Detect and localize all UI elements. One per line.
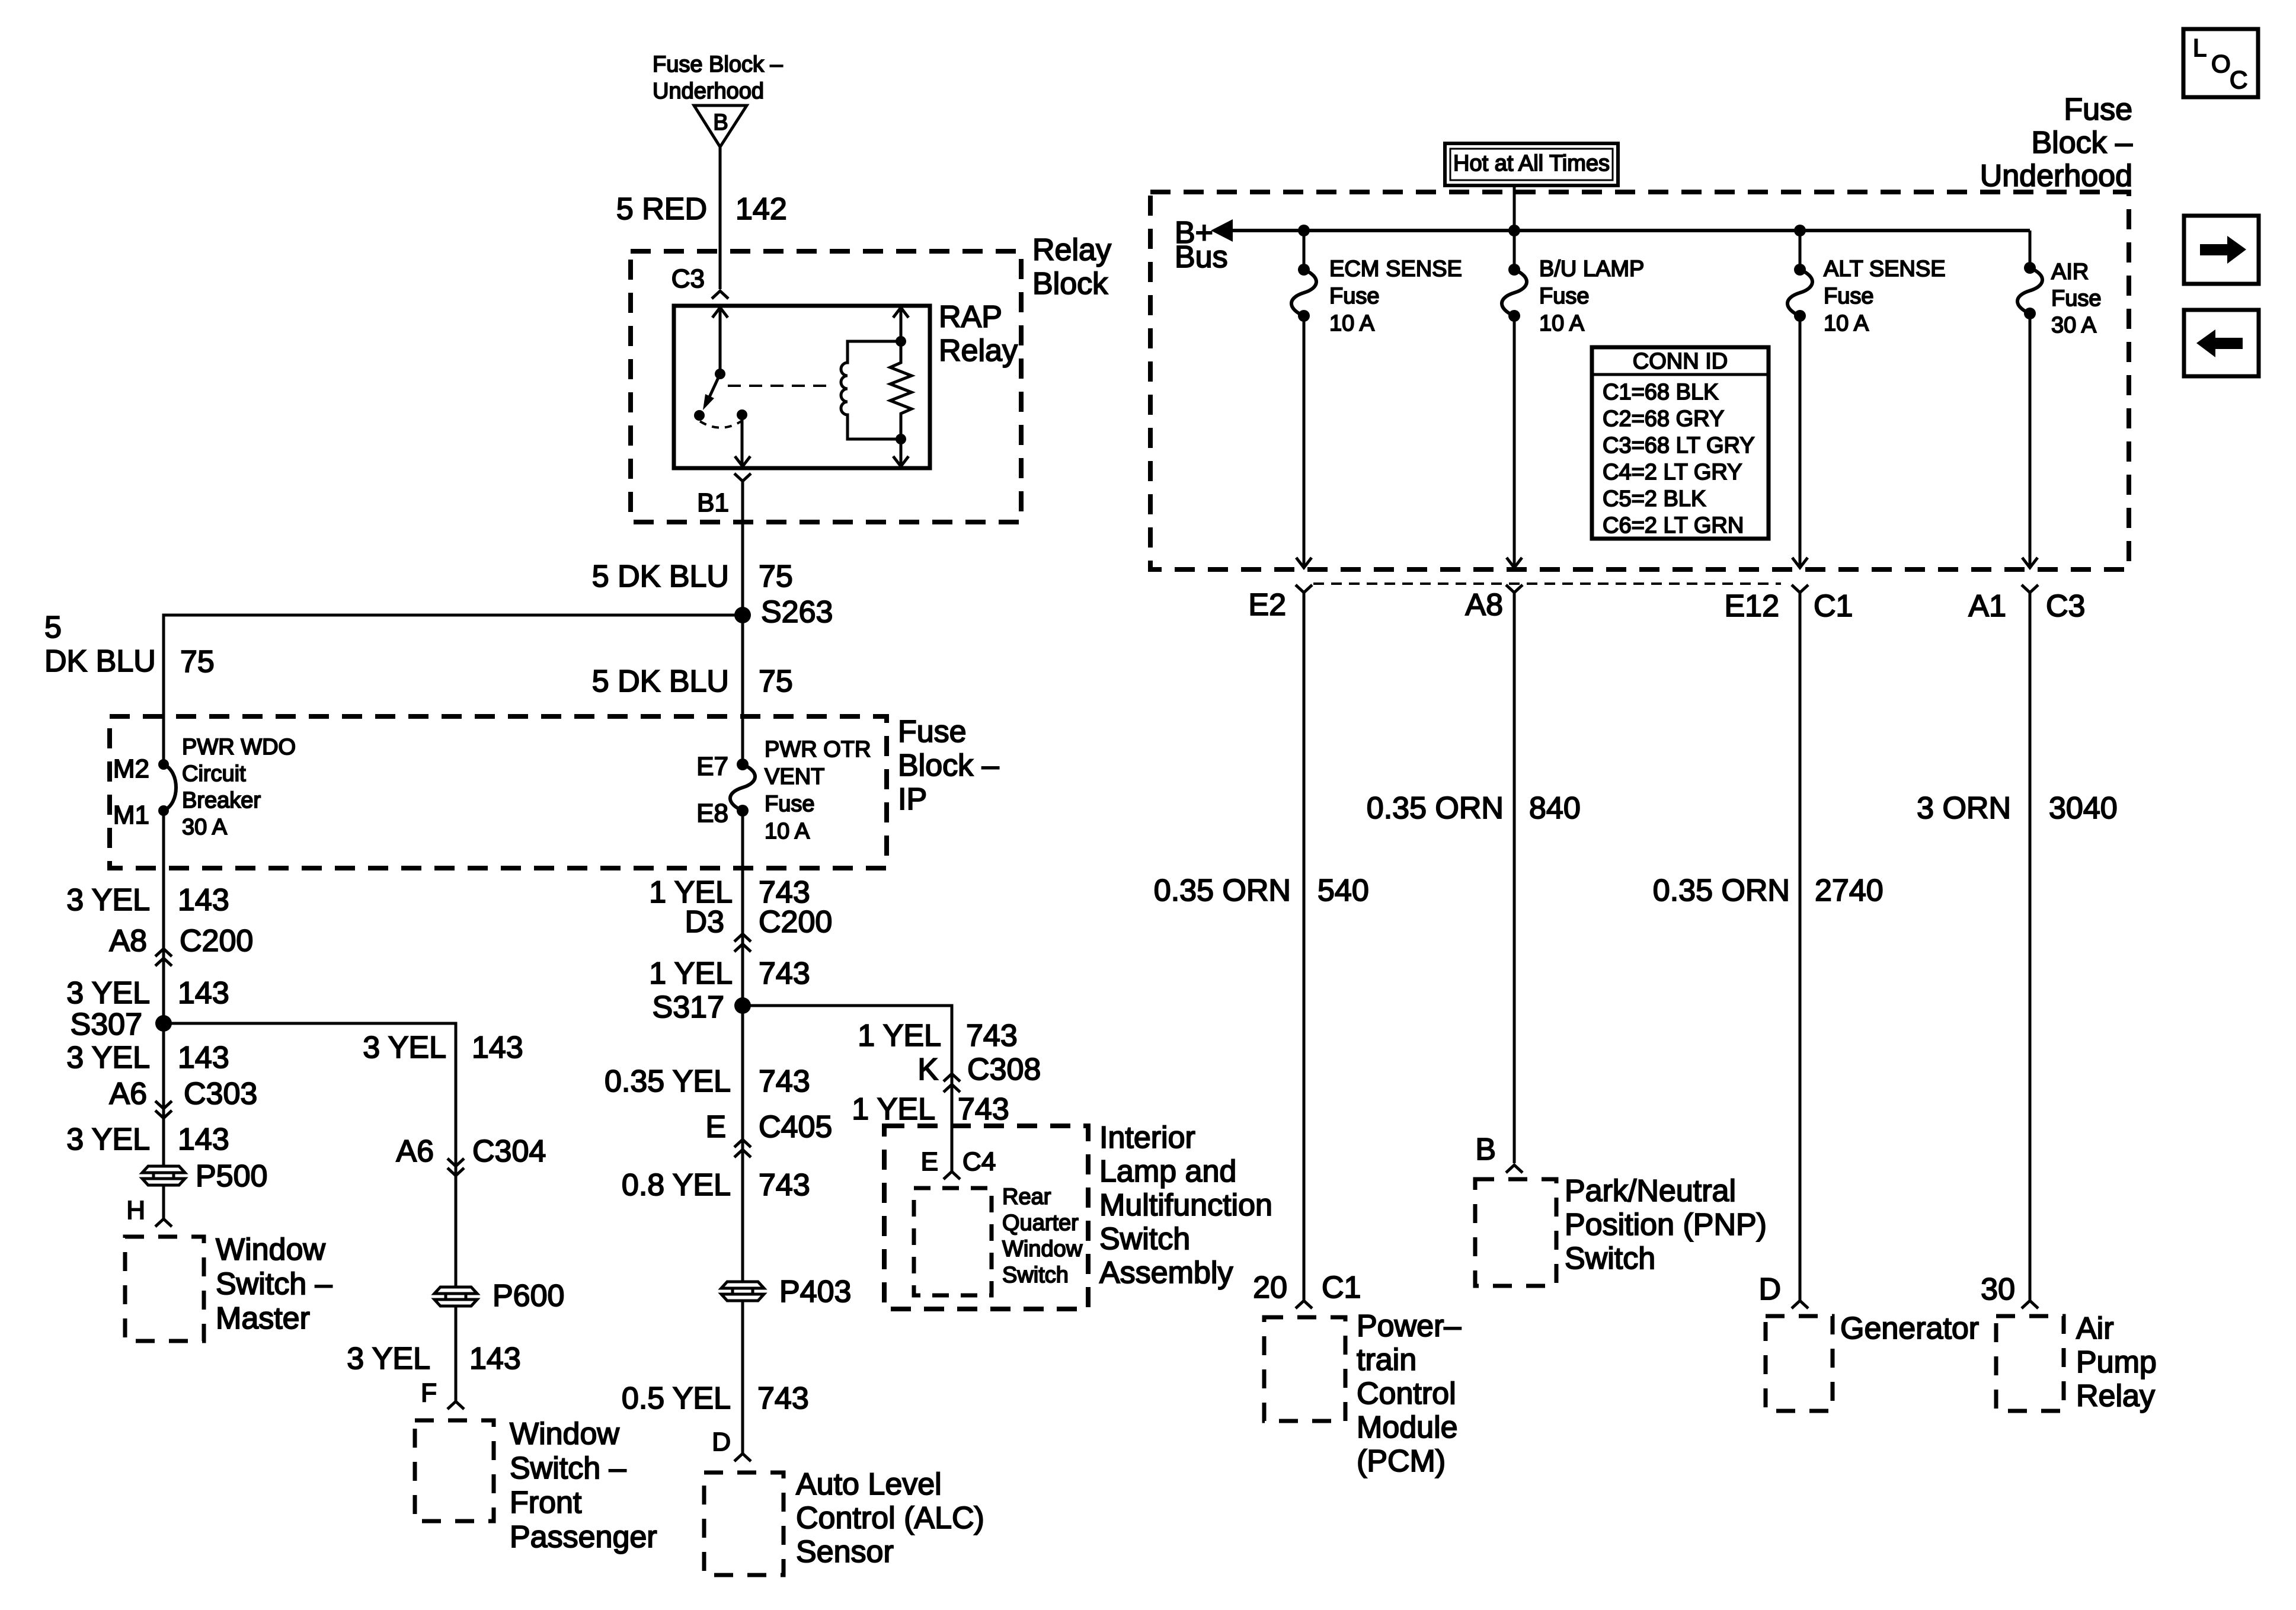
svg-text:E: E bbox=[705, 1110, 726, 1144]
svg-text:143: 143 bbox=[178, 1122, 229, 1157]
svg-text:A1: A1 bbox=[1968, 589, 2006, 623]
splice S317 bbox=[734, 997, 751, 1014]
svg-text:1 YEL: 1 YEL bbox=[852, 1092, 935, 1126]
wire: B/U fuse down to A8 with arrow bbox=[1513, 316, 1516, 568]
relay: common feed with up arrow bbox=[719, 306, 722, 374]
svg-text:10 A: 10 A bbox=[765, 819, 810, 844]
connector chevron H bbox=[155, 1219, 172, 1227]
wire: M1 down to S307 bbox=[162, 811, 165, 1023]
svg-text:Power–: Power– bbox=[1357, 1309, 1461, 1343]
svg-text:Relay: Relay bbox=[1032, 233, 1111, 267]
svg-text:0.35 ORN: 0.35 ORN bbox=[1653, 873, 1790, 908]
wire: ALT fuse down to E12 with arrow bbox=[1799, 316, 1802, 568]
svg-text:train: train bbox=[1357, 1343, 1416, 1377]
generator box bbox=[1766, 1316, 1833, 1411]
wire: B triangle down to relay block pin C3 bbox=[719, 147, 722, 289]
connector chevron A8 bbox=[1506, 585, 1523, 593]
svg-text:3 YEL: 3 YEL bbox=[66, 1122, 150, 1157]
svg-text:Relay: Relay bbox=[939, 334, 1018, 368]
svg-text:Lamp and: Lamp and bbox=[1099, 1154, 1236, 1189]
svg-text:D: D bbox=[1758, 1272, 1781, 1307]
svg-text:75: 75 bbox=[759, 664, 793, 699]
wire: AIR fuse down to A1 with arrow bbox=[2029, 313, 2032, 568]
inline connector C200 center (double chevron up) bbox=[734, 934, 751, 942]
svg-text:Pump: Pump bbox=[2076, 1345, 2157, 1379]
rear quarter window switch box bbox=[914, 1188, 992, 1295]
wire: relay B1 down to splice S263 bbox=[741, 481, 744, 615]
svg-text:3 YEL: 3 YEL bbox=[363, 1030, 446, 1065]
svg-text:10 A: 10 A bbox=[1539, 311, 1585, 336]
svg-text:E2: E2 bbox=[1248, 588, 1286, 622]
svg-text:Underhood: Underhood bbox=[653, 79, 764, 104]
svg-text:Underhood: Underhood bbox=[1980, 159, 2132, 193]
relay: contact dots bbox=[694, 410, 705, 421]
svg-text:0.5 YEL: 0.5 YEL bbox=[622, 1381, 731, 1416]
svg-text:C4=2 LT GRY: C4=2 LT GRY bbox=[1603, 460, 1742, 485]
relay: switched output with down arrow bbox=[741, 415, 744, 468]
svg-text:C200: C200 bbox=[759, 905, 832, 939]
svg-text:143: 143 bbox=[178, 1041, 229, 1075]
svg-text:B1: B1 bbox=[697, 488, 729, 517]
connector chevron B1 out of relay block bbox=[734, 473, 751, 481]
B+ bus arrow bbox=[1211, 219, 1233, 242]
backward page reference arrow bbox=[2184, 310, 2259, 376]
connector chevron into PCM bbox=[1296, 1301, 1312, 1308]
svg-text:AIR: AIR bbox=[2051, 260, 2089, 284]
svg-text:S307: S307 bbox=[71, 1007, 142, 1042]
svg-text:E8: E8 bbox=[696, 799, 728, 828]
svg-text:O: O bbox=[2211, 50, 2231, 78]
svg-text:ALT SENSE: ALT SENSE bbox=[1824, 257, 1946, 281]
svg-text:Window: Window bbox=[510, 1417, 619, 1451]
svg-text:(PCM): (PCM) bbox=[1357, 1444, 1446, 1478]
svg-text:Relay: Relay bbox=[2076, 1379, 2155, 1413]
wire: E12 C1 down to generator bbox=[1799, 593, 1802, 1301]
svg-text:DK BLU: DK BLU bbox=[44, 644, 156, 678]
connector chevron into generator bbox=[1792, 1301, 1808, 1308]
svg-text:3040: 3040 bbox=[2049, 791, 2118, 825]
wire: S317 branch right to rear quarter window switch bbox=[743, 1006, 952, 1070]
svg-text:5 RED: 5 RED bbox=[616, 192, 707, 226]
svg-text:Generator: Generator bbox=[1840, 1311, 1979, 1346]
grommet P500 bbox=[142, 1166, 185, 1173]
svg-text:743: 743 bbox=[759, 956, 810, 991]
svg-text:Rear: Rear bbox=[1002, 1185, 1051, 1209]
inline connector C200 (double chevron up) bbox=[155, 949, 172, 956]
wire: P500 down to H bbox=[162, 1185, 165, 1219]
wire: bus corner to AIR fuse bbox=[2029, 231, 2032, 268]
svg-text:3 ORN: 3 ORN bbox=[1917, 791, 2011, 825]
fuse block IP boundary (dashed) bbox=[110, 716, 887, 868]
svg-text:ECM SENSE: ECM SENSE bbox=[1329, 257, 1462, 281]
powertrain control module box bbox=[1264, 1317, 1345, 1421]
wire: ECM fuse down to E2 with arrow bbox=[1303, 316, 1306, 568]
fuse ECM SENSE 10A bbox=[1291, 270, 1316, 316]
svg-text:3 YEL: 3 YEL bbox=[66, 1041, 150, 1075]
svg-text:A6: A6 bbox=[396, 1134, 434, 1169]
svg-text:3 YEL: 3 YEL bbox=[66, 883, 150, 917]
svg-text:E12: E12 bbox=[1724, 589, 1779, 623]
svg-text:E: E bbox=[921, 1147, 938, 1176]
svg-text:5 DK BLU: 5 DK BLU bbox=[592, 664, 729, 699]
fuse AIR 30A bbox=[2017, 268, 2042, 313]
svg-text:Position (PNP): Position (PNP) bbox=[1565, 1208, 1767, 1242]
svg-text:Assembly: Assembly bbox=[1099, 1256, 1233, 1290]
connector chevron into air pump relay bbox=[2022, 1301, 2038, 1308]
svg-text:840: 840 bbox=[1529, 791, 1581, 825]
svg-text:Switch: Switch bbox=[1565, 1241, 1655, 1276]
svg-text:C3: C3 bbox=[2046, 589, 2085, 623]
svg-text:B: B bbox=[1475, 1132, 1496, 1167]
svg-text:10 A: 10 A bbox=[1824, 311, 1869, 336]
svg-text:0.35 YEL: 0.35 YEL bbox=[605, 1064, 731, 1099]
svg-text:Fuse: Fuse bbox=[2064, 92, 2132, 127]
svg-text:K: K bbox=[917, 1052, 938, 1087]
auto level control sensor box bbox=[704, 1473, 784, 1575]
wire: S307 branch right to window switch front passenger bbox=[164, 1023, 456, 1166]
svg-text:743: 743 bbox=[759, 1064, 810, 1099]
svg-text:Switch: Switch bbox=[1002, 1263, 1069, 1288]
svg-text:B/U LAMP: B/U LAMP bbox=[1539, 257, 1644, 281]
bus junction dot at B/U column bbox=[1508, 225, 1520, 236]
svg-text:20: 20 bbox=[1253, 1270, 1287, 1305]
svg-text:M1: M1 bbox=[113, 801, 149, 830]
forward page reference arrow bbox=[2184, 216, 2259, 284]
svg-text:E7: E7 bbox=[696, 752, 728, 781]
svg-text:P600: P600 bbox=[493, 1279, 564, 1313]
wire: C405 down to P403 bbox=[741, 1006, 744, 1282]
svg-text:Sensor: Sensor bbox=[796, 1535, 894, 1569]
connector chevron A1 C3 bbox=[2022, 585, 2038, 593]
grommet P403 bbox=[721, 1282, 764, 1288]
svg-text:Fuse Block –: Fuse Block – bbox=[653, 52, 784, 77]
connector chevron E12 C1 bbox=[1792, 585, 1808, 593]
svg-text:142: 142 bbox=[736, 192, 787, 226]
window switch - front passenger box bbox=[415, 1420, 494, 1521]
svg-text:Quarter: Quarter bbox=[1002, 1211, 1079, 1235]
svg-text:Fuse: Fuse bbox=[1329, 284, 1379, 309]
svg-text:C5=2 BLK: C5=2 BLK bbox=[1603, 486, 1706, 511]
svg-text:Park/Neutral: Park/Neutral bbox=[1565, 1174, 1736, 1208]
svg-text:C200: C200 bbox=[180, 924, 253, 958]
svg-text:C3=68 LT GRY: C3=68 LT GRY bbox=[1603, 433, 1755, 458]
connector chevron D (ALC) bbox=[734, 1454, 751, 1461]
svg-text:C4: C4 bbox=[962, 1147, 996, 1176]
relay resistor bbox=[890, 306, 912, 468]
svg-text:PWR WDO: PWR WDO bbox=[182, 735, 296, 760]
connector chevron E2 bbox=[1296, 585, 1312, 593]
svg-text:C308: C308 bbox=[967, 1052, 1041, 1087]
svg-text:743: 743 bbox=[759, 1168, 810, 1202]
wire: E2 down to PCM bbox=[1303, 593, 1306, 1301]
label box: Hot at All Times bbox=[1445, 143, 1618, 185]
svg-text:Passenger: Passenger bbox=[510, 1520, 657, 1554]
svg-text:M2: M2 bbox=[113, 754, 149, 783]
off-page connector triangle B bbox=[694, 105, 747, 147]
svg-text:Fuse: Fuse bbox=[898, 715, 967, 749]
relay: switch arm with arrowhead bbox=[709, 374, 720, 398]
svg-text:P500: P500 bbox=[196, 1159, 267, 1193]
svg-text:743: 743 bbox=[966, 1019, 1018, 1053]
svg-text:Bus: Bus bbox=[1175, 240, 1228, 274]
svg-text:H: H bbox=[126, 1196, 145, 1225]
fuse B/U LAMP 10A bbox=[1502, 270, 1527, 316]
splice S307 bbox=[155, 1015, 172, 1032]
svg-text:Switch: Switch bbox=[1099, 1222, 1190, 1256]
svg-text:Switch –: Switch – bbox=[510, 1451, 626, 1486]
svg-text:Block –: Block – bbox=[2031, 126, 2132, 160]
window switch - master box bbox=[125, 1237, 204, 1341]
svg-text:Circuit: Circuit bbox=[182, 761, 246, 786]
svg-text:Control: Control bbox=[1357, 1377, 1456, 1411]
connector chevron F bbox=[447, 1401, 464, 1409]
svg-text:143: 143 bbox=[178, 976, 229, 1010]
wire: C303 down to P500 bbox=[162, 1023, 165, 1166]
svg-text:Fuse: Fuse bbox=[1539, 284, 1589, 309]
svg-text:Window: Window bbox=[1002, 1237, 1083, 1262]
svg-text:A8: A8 bbox=[1465, 588, 1503, 622]
RAP relay body bbox=[674, 306, 930, 468]
svg-text:C: C bbox=[2230, 66, 2247, 94]
svg-text:1 YEL: 1 YEL bbox=[649, 956, 733, 991]
air pump relay box bbox=[1996, 1316, 2064, 1411]
bus junction dot at ALT column bbox=[1794, 225, 1806, 236]
inline connector C304 (double chevron down) bbox=[447, 1158, 464, 1166]
wire: S263 down to fuse block IP bbox=[741, 615, 744, 764]
svg-text:RAP: RAP bbox=[939, 300, 1002, 334]
svg-text:75: 75 bbox=[180, 645, 215, 679]
svg-text:743: 743 bbox=[958, 1092, 1009, 1126]
B+ bus wire bbox=[1232, 229, 2030, 232]
svg-text:C6=2 LT GRN: C6=2 LT GRN bbox=[1603, 513, 1744, 538]
CONN ID table bbox=[1592, 347, 1769, 539]
svg-text:743: 743 bbox=[757, 1381, 809, 1416]
svg-text:Hot at All Times: Hot at All Times bbox=[1453, 151, 1610, 176]
wire: P403 down to D bbox=[741, 1301, 744, 1454]
wire: bus to ECM fuse bbox=[1303, 231, 1306, 270]
svg-text:143: 143 bbox=[472, 1030, 523, 1065]
svg-text:Window: Window bbox=[216, 1233, 325, 1267]
wire: C304 down to P600 bbox=[455, 1166, 458, 1287]
svg-text:Auto Level: Auto Level bbox=[796, 1467, 942, 1502]
svg-text:30 A: 30 A bbox=[2051, 313, 2097, 338]
wire: S263 branch left to PWR WDO breaker bbox=[164, 615, 743, 764]
svg-text:Front: Front bbox=[510, 1486, 582, 1520]
relay: pivot dot bbox=[715, 369, 725, 379]
inline connector C308 (double chevron up) bbox=[944, 1074, 960, 1081]
wire: C308 down into assembly bbox=[951, 1007, 954, 1172]
svg-text:S263: S263 bbox=[761, 595, 833, 629]
bus junction dot at ECM column bbox=[1298, 225, 1310, 236]
svg-text:C2=68 GRY: C2=68 GRY bbox=[1603, 406, 1724, 431]
svg-text:Interior: Interior bbox=[1099, 1121, 1195, 1155]
connector chevron into PNP switch bbox=[1506, 1165, 1523, 1173]
wire: A1 C3 down to air pump relay bbox=[2029, 593, 2032, 1301]
svg-text:C1=68 BLK: C1=68 BLK bbox=[1603, 380, 1718, 405]
svg-text:A6: A6 bbox=[109, 1077, 147, 1111]
svg-text:A8: A8 bbox=[109, 924, 147, 958]
svg-text:540: 540 bbox=[1318, 873, 1369, 908]
svg-text:C1: C1 bbox=[1322, 1270, 1361, 1305]
svg-text:C405: C405 bbox=[759, 1110, 832, 1144]
relay block boundary (dashed) bbox=[631, 251, 1021, 522]
svg-text:PWR OTR: PWR OTR bbox=[765, 737, 871, 762]
connector chevron C4 bbox=[944, 1172, 960, 1179]
inline connector C405 (double chevron up) bbox=[734, 1140, 751, 1147]
svg-text:S317: S317 bbox=[653, 990, 724, 1025]
interior lamp and multifunction switch assembly box bbox=[884, 1126, 1088, 1309]
svg-text:Fuse: Fuse bbox=[765, 792, 814, 817]
svg-text:0.35 ORN: 0.35 ORN bbox=[1154, 873, 1291, 908]
svg-text:Multifunction: Multifunction bbox=[1099, 1188, 1272, 1222]
wire: A8 down to PNP switch bbox=[1513, 593, 1516, 1163]
relay: dashed actuation link to coil bbox=[728, 385, 830, 387]
svg-text:CONN ID: CONN ID bbox=[1633, 349, 1728, 374]
connector chevron C3 into RAP relay bbox=[712, 291, 728, 299]
svg-text:L: L bbox=[2193, 34, 2207, 62]
svg-text:143: 143 bbox=[178, 883, 229, 917]
wire: E8 down to S317 bbox=[741, 811, 744, 1006]
svg-text:5: 5 bbox=[44, 610, 62, 645]
svg-text:F: F bbox=[421, 1378, 437, 1407]
svg-text:2740: 2740 bbox=[1815, 873, 1884, 908]
svg-text:D3: D3 bbox=[685, 905, 724, 939]
park/neutral position switch box bbox=[1475, 1179, 1556, 1286]
svg-text:P403: P403 bbox=[779, 1275, 851, 1309]
svg-text:Block –: Block – bbox=[898, 748, 999, 783]
fuse ALT SENSE 10A bbox=[1787, 270, 1812, 316]
svg-text:143: 143 bbox=[469, 1342, 521, 1376]
svg-text:3 YEL: 3 YEL bbox=[347, 1342, 430, 1376]
svg-text:1 YEL: 1 YEL bbox=[858, 1019, 941, 1053]
svg-text:Master: Master bbox=[216, 1301, 310, 1336]
wire: bus to ALT fuse bbox=[1799, 231, 1802, 270]
fuse block underhood boundary (dashed) bbox=[1150, 192, 2129, 569]
svg-text:Module: Module bbox=[1357, 1410, 1458, 1445]
inline connector C303 (double chevron down) bbox=[155, 1101, 172, 1109]
svg-text:10 A: 10 A bbox=[1329, 311, 1375, 336]
svg-text:Control (ALC): Control (ALC) bbox=[796, 1501, 984, 1535]
splice S263 bbox=[734, 607, 751, 623]
svg-text:Switch –: Switch – bbox=[216, 1267, 332, 1301]
svg-text:30: 30 bbox=[1981, 1272, 2015, 1307]
grommet P600 bbox=[434, 1287, 477, 1294]
svg-text:C1: C1 bbox=[1814, 589, 1853, 623]
circuit breaker PWR WDO 30A bbox=[158, 759, 169, 770]
svg-text:C303: C303 bbox=[184, 1077, 257, 1111]
wire: bus to B/U fuse bbox=[1513, 231, 1516, 270]
svg-text:D: D bbox=[712, 1427, 731, 1457]
svg-text:0.8 YEL: 0.8 YEL bbox=[622, 1168, 731, 1202]
svg-text:75: 75 bbox=[759, 559, 793, 594]
svg-text:Fuse: Fuse bbox=[2051, 286, 2101, 311]
connector face line (thin dashed) bbox=[1313, 582, 1781, 585]
svg-text:3 YEL: 3 YEL bbox=[66, 976, 150, 1010]
relay coil (parallel with resistor) bbox=[896, 336, 906, 347]
svg-text:IP: IP bbox=[898, 782, 927, 817]
svg-text:Air: Air bbox=[2076, 1311, 2114, 1346]
relay: dashed throw arc bbox=[700, 421, 742, 428]
svg-text:Block: Block bbox=[1032, 267, 1108, 301]
LOC marker box bbox=[2183, 29, 2258, 97]
svg-text:Breaker: Breaker bbox=[182, 788, 261, 813]
svg-text:0.35 ORN: 0.35 ORN bbox=[1367, 791, 1504, 825]
fuse PWR OTR VENT 10A bbox=[730, 764, 755, 811]
wire: P600 down to F bbox=[455, 1306, 458, 1401]
svg-text:5 DK BLU: 5 DK BLU bbox=[592, 559, 729, 594]
svg-text:C304: C304 bbox=[472, 1134, 546, 1169]
svg-text:VENT: VENT bbox=[765, 764, 824, 789]
wire: hot feed down to bus bbox=[1513, 185, 1516, 270]
svg-text:Fuse: Fuse bbox=[1824, 284, 1873, 309]
svg-text:30 A: 30 A bbox=[182, 815, 228, 840]
svg-text:B: B bbox=[713, 110, 728, 135]
svg-text:C3: C3 bbox=[671, 264, 705, 293]
